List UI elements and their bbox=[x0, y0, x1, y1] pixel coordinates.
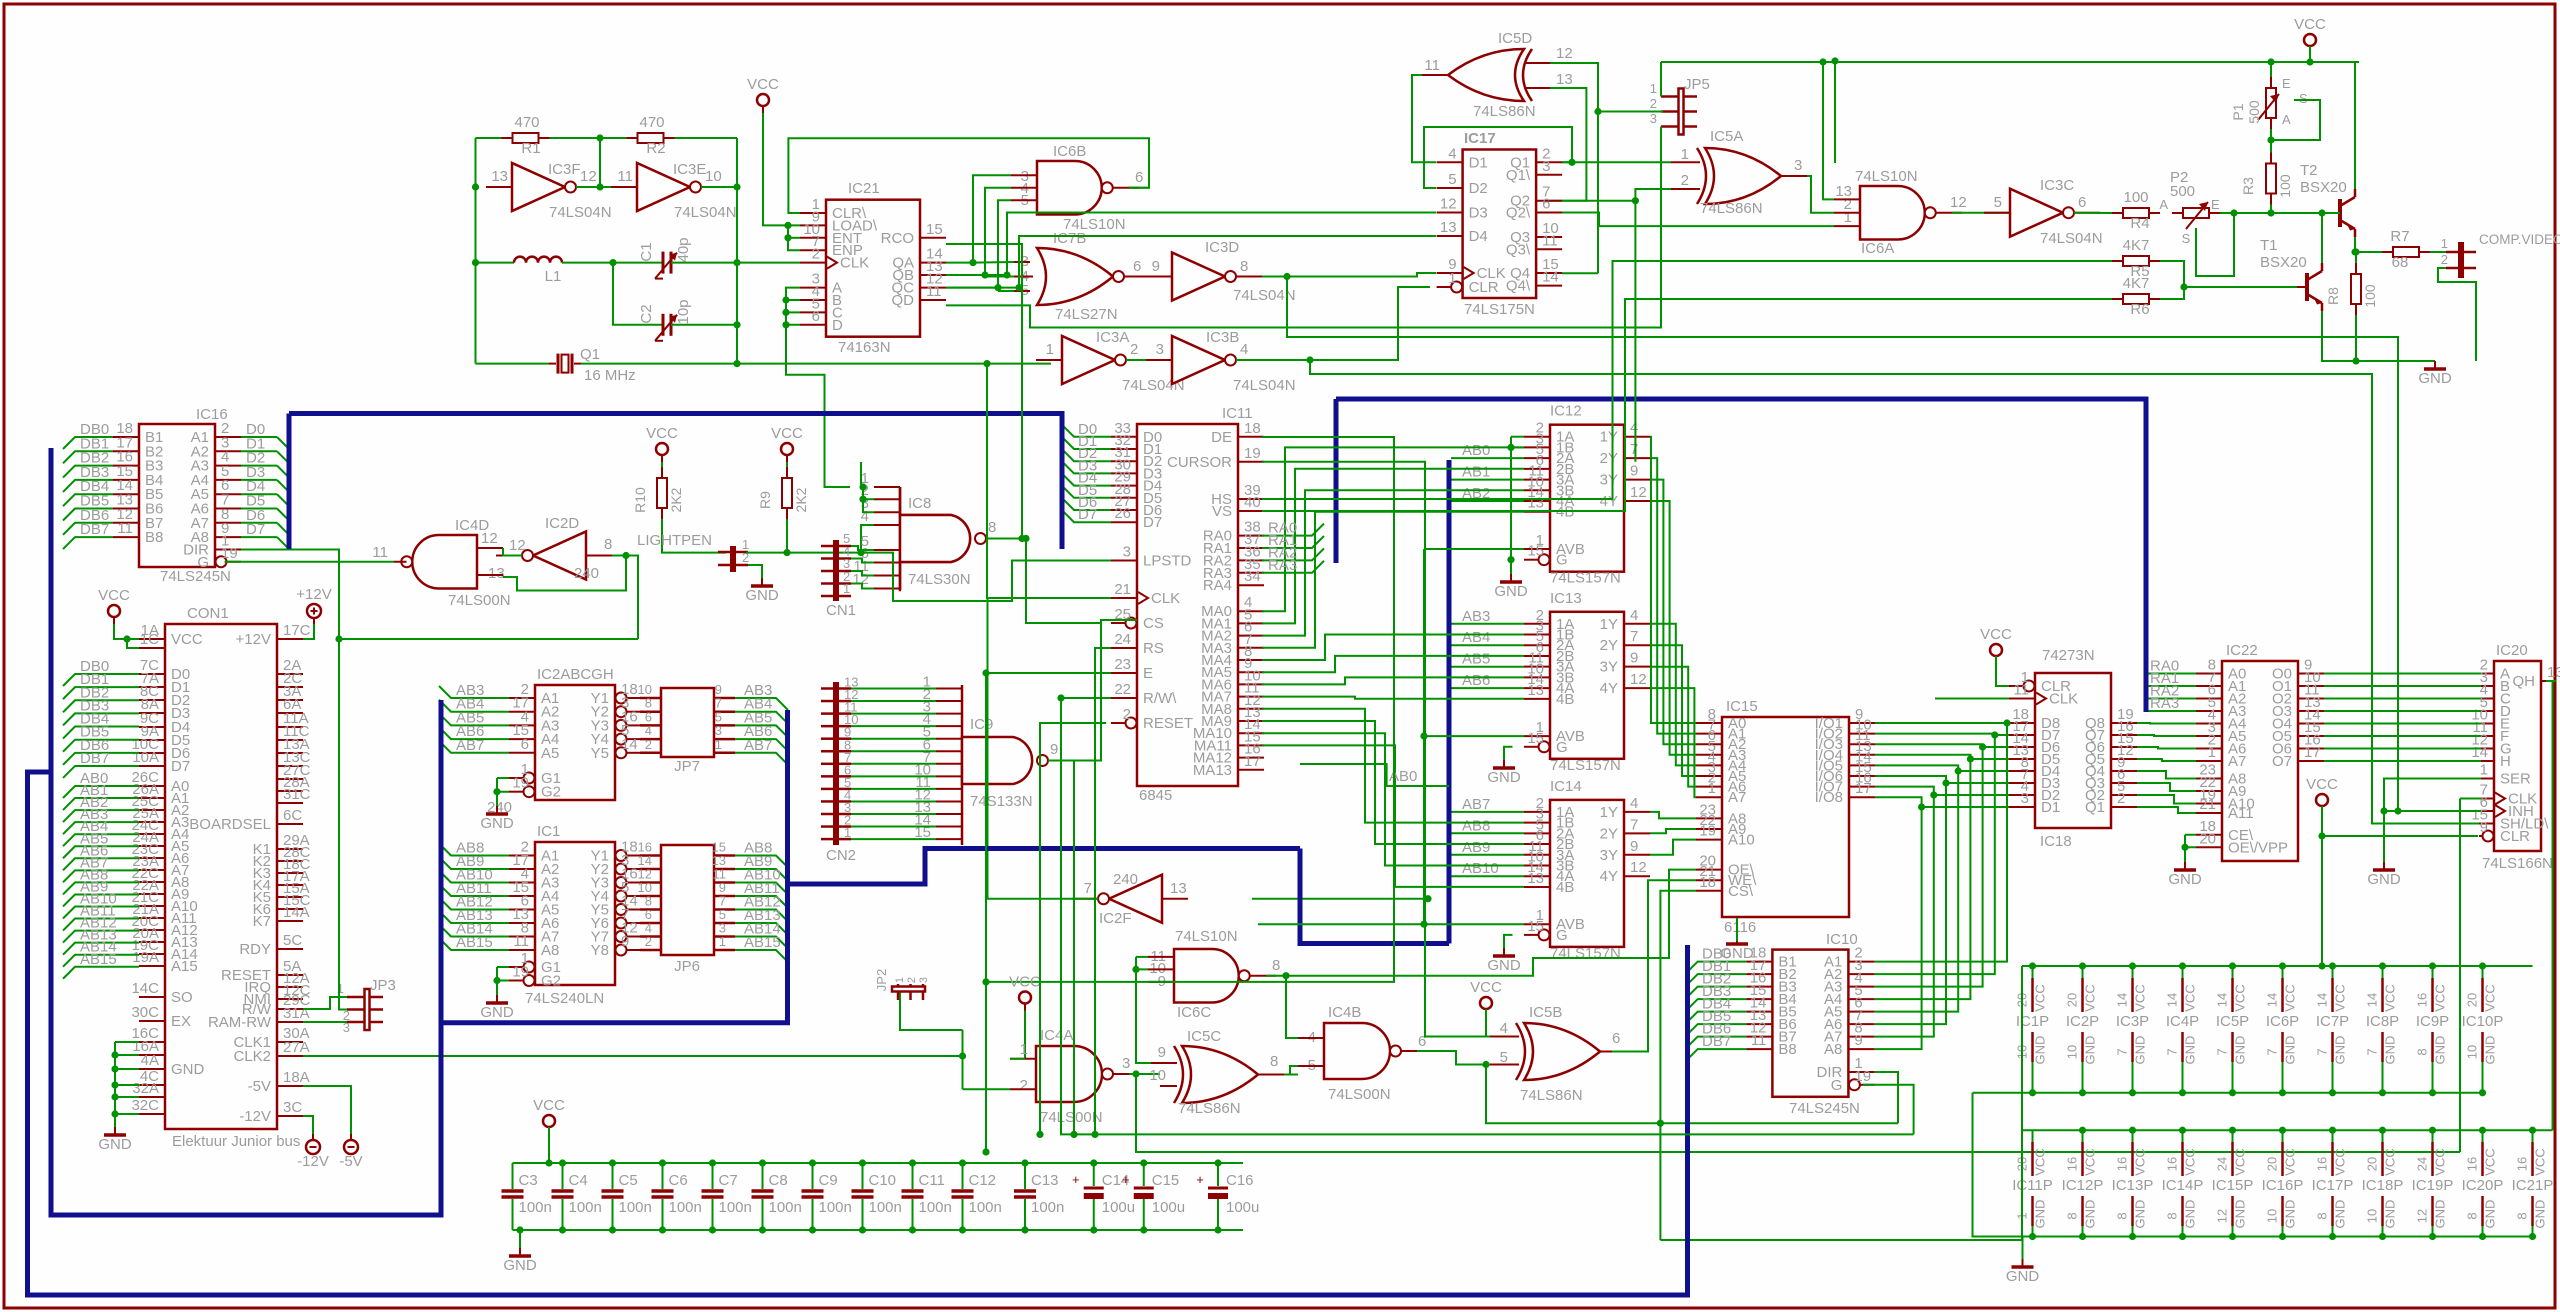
wire CON1 AB8 bbox=[63, 882, 139, 894]
wire I/O7 net bbox=[1874, 787, 1933, 1037]
wire Q2 riser down bbox=[1634, 201, 1636, 462]
wire Q4 to JP5.2 bbox=[1562, 272, 1598, 274]
svg-text:4A: 4A bbox=[141, 1052, 159, 1069]
XOR IC5A 74LS86N bbox=[1705, 148, 1781, 204]
svg-text:IC3C: IC3C bbox=[2040, 177, 2074, 194]
wire D5 into IC11 bbox=[1062, 486, 1111, 498]
svg-text:AB7: AB7 bbox=[456, 737, 484, 754]
junction dot jp5.2 bbox=[1594, 108, 1601, 115]
wire CON1 AB2 bbox=[63, 810, 139, 822]
wire mux Y to IC15 A4 bbox=[1650, 624, 1696, 766]
svg-text:14: 14 bbox=[2115, 993, 2130, 1007]
svg-text:R4: R4 bbox=[2130, 215, 2149, 232]
wire CLK2 long bbox=[303, 1055, 963, 1057]
svg-text:VCC: VCC bbox=[2033, 1148, 2048, 1175]
svg-text:100n: 100n bbox=[769, 1199, 802, 1216]
wire r10 top bbox=[661, 462, 663, 478]
svg-text:Y8: Y8 bbox=[591, 942, 609, 959]
svg-text:9: 9 bbox=[1050, 741, 1058, 758]
bus AB mux vertical bbox=[1447, 460, 1452, 944]
svg-text:Q2\: Q2\ bbox=[1506, 205, 1531, 222]
junction dot E bbox=[982, 1148, 989, 1155]
wire IC4B to IC5B.5 bbox=[1445, 1051, 1490, 1065]
wire O1 to IC20 bbox=[2324, 685, 2481, 687]
svg-text:7: 7 bbox=[2215, 1048, 2230, 1055]
wire CN2 to IC9 4 bbox=[851, 738, 936, 740]
wire Q2b to IC6A.1 bbox=[1562, 213, 1834, 227]
svg-text:Y5: Y5 bbox=[591, 745, 609, 762]
svg-text:D3: D3 bbox=[1469, 205, 1488, 222]
svg-text:C16: C16 bbox=[1226, 1172, 1254, 1189]
svg-text:R8: R8 bbox=[2325, 287, 2341, 305]
junction dot 1310 bbox=[1306, 356, 1313, 363]
svg-text:240: 240 bbox=[1113, 871, 1138, 888]
svg-text:VS: VS bbox=[1212, 503, 1232, 520]
connector CN1 bbox=[833, 540, 839, 601]
power pins IC2P bbox=[2082, 966, 2084, 978]
svg-text:VCC: VCC bbox=[1470, 979, 1502, 996]
svg-text:G2: G2 bbox=[541, 784, 561, 801]
wire Q6 to IC22 bbox=[2137, 747, 2196, 749]
svg-text:IC4B: IC4B bbox=[1328, 1004, 1361, 1021]
bus D top bbox=[289, 414, 1062, 550]
wire O6 to IC20 bbox=[2324, 748, 2481, 750]
wire MA10 to mux bbox=[1262, 733, 1524, 865]
svg-text:VCC: VCC bbox=[2183, 984, 2198, 1011]
svg-text:5: 5 bbox=[1994, 194, 2002, 211]
wire mux Y to IC15 A7 bbox=[1650, 688, 1696, 797]
svg-text:74LS30N: 74LS30N bbox=[908, 571, 971, 588]
junction dots con1 gnd bbox=[111, 1051, 118, 1058]
svg-text:D4: D4 bbox=[1469, 228, 1488, 245]
svg-text:15: 15 bbox=[1527, 543, 1544, 560]
svg-text:74163N: 74163N bbox=[838, 339, 891, 356]
svg-text:5: 5 bbox=[1500, 1049, 1508, 1066]
ground GND IC1 bbox=[496, 995, 498, 1003]
wire D7 into IC11 bbox=[1062, 510, 1111, 522]
wire mux Y to IC15 A0 bbox=[1650, 437, 1696, 723]
capacitor C4 100n bbox=[562, 1163, 564, 1189]
wire DB3 into IC10 bbox=[1686, 999, 1747, 1011]
svg-text:AB15: AB15 bbox=[80, 951, 117, 968]
wire inh gnd v bbox=[2383, 811, 2385, 862]
svg-text:AB15: AB15 bbox=[744, 934, 781, 951]
wire I/O2 to IC18 bbox=[1995, 734, 2009, 736]
svg-text:C3: C3 bbox=[519, 1172, 538, 1189]
power pins IC12P bbox=[2082, 1130, 2084, 1142]
svg-text:C13: C13 bbox=[1031, 1172, 1059, 1189]
svg-text:3: 3 bbox=[2021, 790, 2029, 807]
svg-text:12: 12 bbox=[580, 168, 597, 185]
svg-text:3C: 3C bbox=[283, 1099, 302, 1116]
svg-text:IC11: IC11 bbox=[1222, 405, 1253, 422]
wire JP5.3 route bbox=[946, 127, 1661, 328]
svg-text:IC16: IC16 bbox=[196, 406, 228, 423]
svg-text:74LS04N: 74LS04N bbox=[2040, 230, 2103, 247]
junction dot IC8 out bbox=[1022, 535, 1029, 542]
svg-text:AB6: AB6 bbox=[1462, 672, 1490, 689]
wire IC3A to IC3B bbox=[1126, 359, 1172, 361]
svg-text:GND: GND bbox=[2367, 871, 2401, 888]
jumper JP7 block bbox=[661, 688, 714, 757]
wire DIR ic10 loop bbox=[1874, 1072, 1898, 1123]
capacitor C9 100n bbox=[812, 1163, 814, 1189]
wire JP6 AB9 bbox=[735, 869, 788, 881]
svg-text:GND: GND bbox=[2333, 1036, 2348, 1065]
wire OE from IC6C bbox=[1286, 870, 1696, 976]
svg-text:17: 17 bbox=[2304, 744, 2321, 761]
svg-text:BSX20: BSX20 bbox=[2300, 179, 2347, 196]
svg-text:VCC: VCC bbox=[2294, 16, 2326, 33]
svg-text:2: 2 bbox=[906, 977, 918, 983]
wire gnd row2 drop bbox=[2022, 1237, 2024, 1260]
svg-text:G: G bbox=[1556, 927, 1568, 944]
wire IC21 ABCD down bbox=[786, 325, 850, 487]
wire I/O4 to IC18 bbox=[1970, 758, 2009, 760]
svg-text:74273N: 74273N bbox=[2042, 647, 2095, 664]
svg-text:E: E bbox=[1143, 665, 1153, 682]
svg-text:7: 7 bbox=[1630, 816, 1638, 833]
wire CN2 to IC9 6 bbox=[851, 763, 936, 765]
wire AB10 to IC1 bbox=[439, 871, 509, 883]
svg-text:16: 16 bbox=[2465, 1157, 2480, 1171]
svg-text:5C: 5C bbox=[283, 932, 302, 949]
wire JP7 AB6 bbox=[735, 739, 788, 751]
XOR IC5C 74LS86N bbox=[1182, 1046, 1258, 1103]
svg-text:I/O8: I/O8 bbox=[1815, 789, 1843, 806]
IC IC17 74LS175N bbox=[1463, 150, 1537, 299]
svg-text:IC2ABCGH: IC2ABCGH bbox=[537, 666, 614, 683]
svg-text:VCC: VCC bbox=[2533, 1148, 2548, 1175]
svg-text:T1: T1 bbox=[2260, 237, 2278, 254]
wire CLK2 to IC4A bbox=[962, 1030, 964, 1089]
ground GND IC15 bbox=[1736, 936, 1738, 944]
capacitor C11 100n bbox=[912, 1163, 914, 1189]
svg-text:VCC: VCC bbox=[2133, 1148, 2148, 1175]
svg-text:JP2: JP2 bbox=[874, 969, 889, 991]
wire JP6 AB10 bbox=[735, 883, 788, 895]
wire IC16 G bbox=[225, 561, 395, 563]
svg-text:VCC: VCC bbox=[771, 425, 803, 442]
wire D5 diag into bus bbox=[277, 509, 289, 521]
svg-text:3Y: 3Y bbox=[1600, 659, 1618, 676]
wire CON1 AB11 bbox=[63, 919, 139, 931]
resistor R4 100 bbox=[2123, 208, 2149, 218]
wire I/O1 to IC18 bbox=[2007, 722, 2009, 724]
svg-text:S: S bbox=[2182, 231, 2191, 246]
junction dot 1022 bbox=[1018, 535, 1025, 542]
wire D7 diag into bus bbox=[277, 537, 289, 549]
svg-text:100n: 100n bbox=[619, 1199, 652, 1216]
wire CN2 to IC9 11 bbox=[851, 826, 936, 828]
resistor R7 68 bbox=[2393, 247, 2419, 257]
bus RA AB main bbox=[1336, 399, 2146, 712]
svg-text:P1: P1 bbox=[2230, 103, 2246, 120]
wire AB6 to IC2 bbox=[439, 727, 509, 739]
bus AB link2 bbox=[1300, 849, 1449, 944]
resistor R2 bbox=[638, 133, 664, 143]
wire crystal row right bbox=[581, 363, 1051, 365]
wire D0 into IC11 bbox=[1062, 425, 1111, 437]
svg-text:IC22: IC22 bbox=[2226, 642, 2258, 659]
svg-text:CLK: CLK bbox=[1151, 590, 1180, 607]
power pins IC3P bbox=[2132, 966, 2134, 978]
svg-text:A: A bbox=[2159, 197, 2168, 212]
svg-text:6: 6 bbox=[521, 736, 529, 753]
svg-text:100n: 100n bbox=[569, 1199, 602, 1216]
wire IC8.2 stub bbox=[863, 498, 874, 500]
svg-text:IC10: IC10 bbox=[1826, 931, 1858, 948]
wire D2 diag into bus bbox=[277, 466, 289, 478]
svg-text:CS: CS bbox=[1143, 615, 1164, 632]
svg-text:IC15P: IC15P bbox=[2212, 1177, 2254, 1194]
svg-text:VCC: VCC bbox=[1009, 974, 1041, 991]
svg-text:74LS04N: 74LS04N bbox=[549, 204, 612, 221]
wire R2 right bbox=[663, 137, 737, 139]
wire E row bbox=[986, 673, 1111, 1152]
svg-text:+: + bbox=[1122, 1172, 1130, 1187]
wire osc right vertical bbox=[736, 138, 738, 364]
bus IC2 area vertical bbox=[439, 700, 444, 1023]
wire IC8 out bbox=[986, 538, 1026, 540]
wire IC9 out v2 bbox=[1073, 761, 1075, 1135]
wire DB5 into IC10 bbox=[1686, 1024, 1747, 1036]
svg-text:O7: O7 bbox=[2272, 753, 2292, 770]
wire vcc caps drop bbox=[548, 1127, 550, 1163]
wire QC to IC6B.5 bbox=[946, 200, 1011, 287]
svg-text:32A: 32A bbox=[132, 1080, 159, 1097]
svg-text:74LS157N: 74LS157N bbox=[1550, 570, 1621, 587]
wire cn1 p3 bbox=[851, 571, 874, 576]
svg-text:AB4: AB4 bbox=[1462, 629, 1490, 646]
inverter IC2D mirrored bbox=[533, 532, 586, 580]
svg-text:IC5D: IC5D bbox=[1498, 30, 1532, 47]
wire JP6 AB12 bbox=[735, 910, 788, 922]
svg-text:A5: A5 bbox=[541, 745, 559, 762]
svg-text:VCC: VCC bbox=[2233, 984, 2248, 1011]
svg-text:D7: D7 bbox=[1143, 514, 1162, 531]
wire MA11 to mux bbox=[1262, 745, 1524, 887]
wire D2 into IC11 bbox=[1062, 449, 1111, 461]
wire IC21 ABCD tie bbox=[786, 288, 800, 325]
svg-text:IC17P: IC17P bbox=[2312, 1177, 2354, 1194]
junction dot ic5a vcc bbox=[1831, 57, 1838, 64]
svg-text:+: + bbox=[1072, 1172, 1080, 1187]
svg-text:GND: GND bbox=[2283, 1200, 2298, 1229]
svg-text:IC5B: IC5B bbox=[1529, 1004, 1562, 1021]
wire IC6C 11 10 tie bbox=[1136, 956, 1148, 958]
supply -5V bbox=[344, 1140, 358, 1154]
wire RA0 into IC22 bbox=[2146, 673, 2196, 675]
wire JP6 AB14 bbox=[735, 937, 788, 949]
wire DB6 into IC10 bbox=[1686, 1037, 1747, 1049]
svg-text:11: 11 bbox=[372, 544, 388, 561]
svg-text:GND: GND bbox=[2033, 1036, 2048, 1065]
svg-text:VCC: VCC bbox=[98, 587, 130, 604]
NOR IC7B 74LS27N bbox=[1037, 248, 1113, 305]
svg-text:DB7: DB7 bbox=[80, 521, 109, 538]
wire AB0 to IC13 avb bbox=[1424, 735, 1524, 737]
wire 29C to JP3 bbox=[303, 997, 347, 1009]
svg-text:2: 2 bbox=[645, 737, 652, 752]
wire AB11 to IC1 bbox=[439, 884, 509, 896]
wire Q5 to IC22 bbox=[2137, 759, 2196, 761]
wire D4 from IC16 bbox=[241, 493, 277, 495]
svg-text:VCC: VCC bbox=[2233, 1148, 2248, 1175]
wire R7 row bbox=[2355, 251, 2382, 253]
svg-text:6: 6 bbox=[2078, 194, 2086, 211]
svg-text:14: 14 bbox=[2265, 993, 2280, 1007]
svg-text:5: 5 bbox=[1448, 171, 1456, 188]
junction dot dir 639 bbox=[335, 635, 342, 642]
wire CLR feedback bbox=[788, 138, 1149, 213]
wire AB4 from bus bbox=[1451, 644, 1524, 646]
svg-text:IC10P: IC10P bbox=[2462, 1013, 2504, 1030]
wire -5V bbox=[303, 1086, 351, 1140]
svg-text:SO: SO bbox=[171, 989, 193, 1006]
wire SER to gnd net bbox=[2384, 779, 2481, 812]
svg-text:8: 8 bbox=[604, 536, 612, 553]
svg-text:IC6C: IC6C bbox=[1177, 1004, 1211, 1021]
svg-text:R2: R2 bbox=[646, 140, 665, 157]
svg-text:IC4A: IC4A bbox=[1040, 1027, 1073, 1044]
IC IC14 74LS157N bbox=[1550, 800, 1624, 947]
svg-text:IC21: IC21 bbox=[848, 180, 880, 197]
svg-text:C15: C15 bbox=[1152, 1172, 1180, 1189]
wire IC15 gnd stub bbox=[1736, 918, 1738, 941]
wire MA4 to mux bbox=[1262, 635, 1524, 661]
wire r9 bottom bbox=[786, 519, 788, 553]
svg-text:1Y: 1Y bbox=[1600, 429, 1618, 446]
svg-text:12: 12 bbox=[2415, 1209, 2430, 1223]
wire cap bottom rail bbox=[513, 1229, 1244, 1231]
svg-text:4K7: 4K7 bbox=[2123, 237, 2150, 254]
svg-text:IC8: IC8 bbox=[908, 495, 931, 512]
svg-text:74LS86N: 74LS86N bbox=[1520, 1087, 1583, 1104]
wire IC1 G tie2 bbox=[497, 967, 509, 981]
wire AB10 from bus bbox=[1451, 875, 1524, 877]
svg-text:26: 26 bbox=[1114, 505, 1131, 522]
wire IC7B out to IC3D bbox=[1146, 276, 1172, 278]
wire R7 to conn bbox=[2430, 251, 2452, 253]
wire C1 to IC21 CLK bbox=[671, 262, 800, 264]
svg-text:14: 14 bbox=[2215, 993, 2230, 1007]
wire con1 gnd pin 1069 bbox=[115, 1068, 139, 1070]
svg-text:8: 8 bbox=[988, 519, 996, 536]
svg-text:AB1: AB1 bbox=[1462, 464, 1490, 481]
wire AB5 from bus bbox=[1451, 666, 1524, 668]
wire IC5B out to WE bbox=[1612, 880, 1696, 1051]
svg-text:4B: 4B bbox=[1556, 504, 1574, 521]
svg-text:30C: 30C bbox=[131, 1004, 159, 1021]
svg-text:VCC: VCC bbox=[747, 76, 779, 93]
wire D6 into IC11 bbox=[1062, 498, 1111, 510]
wire QA to IC6B.3 bbox=[946, 175, 1011, 262]
wire R5R6 join bbox=[2160, 261, 2184, 299]
junction dots QA QB QC bbox=[969, 259, 976, 266]
svg-text:8: 8 bbox=[2165, 1212, 2180, 1219]
svg-text:IC5C: IC5C bbox=[1187, 1028, 1221, 1045]
svg-text:12: 12 bbox=[1950, 194, 1967, 211]
svg-text:C10: C10 bbox=[869, 1172, 897, 1189]
wire IC8 out to CS bbox=[1026, 539, 1100, 624]
supply VCC IC20area bbox=[2316, 794, 2328, 806]
junction dots top rail bbox=[2306, 58, 2313, 65]
capacitor C15 100u bbox=[1143, 1163, 1145, 1186]
capacitor C10 100n bbox=[862, 1163, 864, 1189]
connector COMP.VIDEO bbox=[2458, 242, 2464, 278]
svg-text:RA3: RA3 bbox=[1268, 557, 1297, 574]
junction dot ic6c out bbox=[1282, 972, 1289, 979]
wire IC6C.9 in bbox=[986, 981, 1148, 983]
junction dot T1 coll bbox=[2318, 209, 2325, 216]
junction dot lp bbox=[857, 549, 864, 556]
wire D0 from IC16 bbox=[241, 436, 277, 438]
svg-text:CURSOR: CURSOR bbox=[1167, 454, 1232, 471]
svg-text:IC2D: IC2D bbox=[545, 515, 579, 532]
wire CON1 DB6 bbox=[63, 753, 139, 765]
svg-text:D1: D1 bbox=[1469, 154, 1488, 171]
svg-text:12: 12 bbox=[852, 571, 869, 588]
resistor R10 2K2 bbox=[657, 478, 667, 508]
supply VCC IC21 bbox=[757, 94, 769, 106]
supply VCC R9 bbox=[781, 443, 793, 455]
svg-text:GND: GND bbox=[2383, 1200, 2398, 1229]
svg-text:9: 9 bbox=[1158, 1044, 1166, 1061]
svg-text:7: 7 bbox=[1630, 441, 1638, 458]
wire IC21 B stub bbox=[786, 299, 800, 301]
svg-text:4K7: 4K7 bbox=[2123, 275, 2150, 292]
wire IC5A out bbox=[1807, 176, 1834, 213]
svg-text:24: 24 bbox=[2415, 1157, 2430, 1171]
wire IC7B.4 in bbox=[985, 276, 1014, 278]
svg-text:CLR: CLR bbox=[1469, 279, 1499, 296]
junction dot inh bbox=[2380, 807, 2387, 814]
wire IC17 D3 in bbox=[946, 213, 1436, 276]
svg-text:MA13: MA13 bbox=[1193, 762, 1232, 779]
svg-text:GND: GND bbox=[480, 815, 514, 832]
wire R1-R2 mid bbox=[538, 137, 638, 139]
junction dot ic9 rw bbox=[1070, 1131, 1077, 1138]
junction dots emitter rail bbox=[2352, 357, 2359, 364]
wire IC2 G tie bbox=[497, 777, 509, 779]
power pins IC14P bbox=[2182, 1130, 2184, 1142]
svg-text:+: + bbox=[1196, 1172, 1204, 1187]
trimmer capacitor C1 bbox=[662, 252, 665, 274]
svg-text:10A: 10A bbox=[132, 749, 159, 766]
svg-text:500: 500 bbox=[2246, 100, 2262, 124]
ground GND power grid bbox=[2022, 1259, 2024, 1267]
svg-text:LPSTD: LPSTD bbox=[1143, 553, 1192, 570]
svg-text:74LS175N: 74LS175N bbox=[1464, 301, 1535, 318]
svg-text:IC3E: IC3E bbox=[673, 161, 706, 178]
wire CON1 AB7 bbox=[63, 870, 139, 882]
power pins IC6P bbox=[2282, 966, 2284, 978]
svg-text:IC3P: IC3P bbox=[2116, 1013, 2149, 1030]
NAND IC8 74LS30N bbox=[900, 487, 970, 590]
svg-text:12: 12 bbox=[1630, 859, 1647, 876]
svg-text:B8: B8 bbox=[1778, 1041, 1796, 1058]
NAND IC4B 74LS00N bbox=[1324, 1023, 1390, 1079]
inverter IC3D bbox=[1172, 253, 1225, 301]
svg-text:470: 470 bbox=[514, 114, 539, 131]
wire IC4D.13 loop bbox=[503, 556, 626, 591]
svg-text:SER: SER bbox=[2500, 771, 2531, 788]
svg-text:7: 7 bbox=[2115, 1048, 2130, 1055]
svg-text:IC8P: IC8P bbox=[2366, 1013, 2399, 1030]
svg-text:A7: A7 bbox=[1728, 789, 1746, 806]
junction dot 13loop bbox=[622, 552, 629, 559]
